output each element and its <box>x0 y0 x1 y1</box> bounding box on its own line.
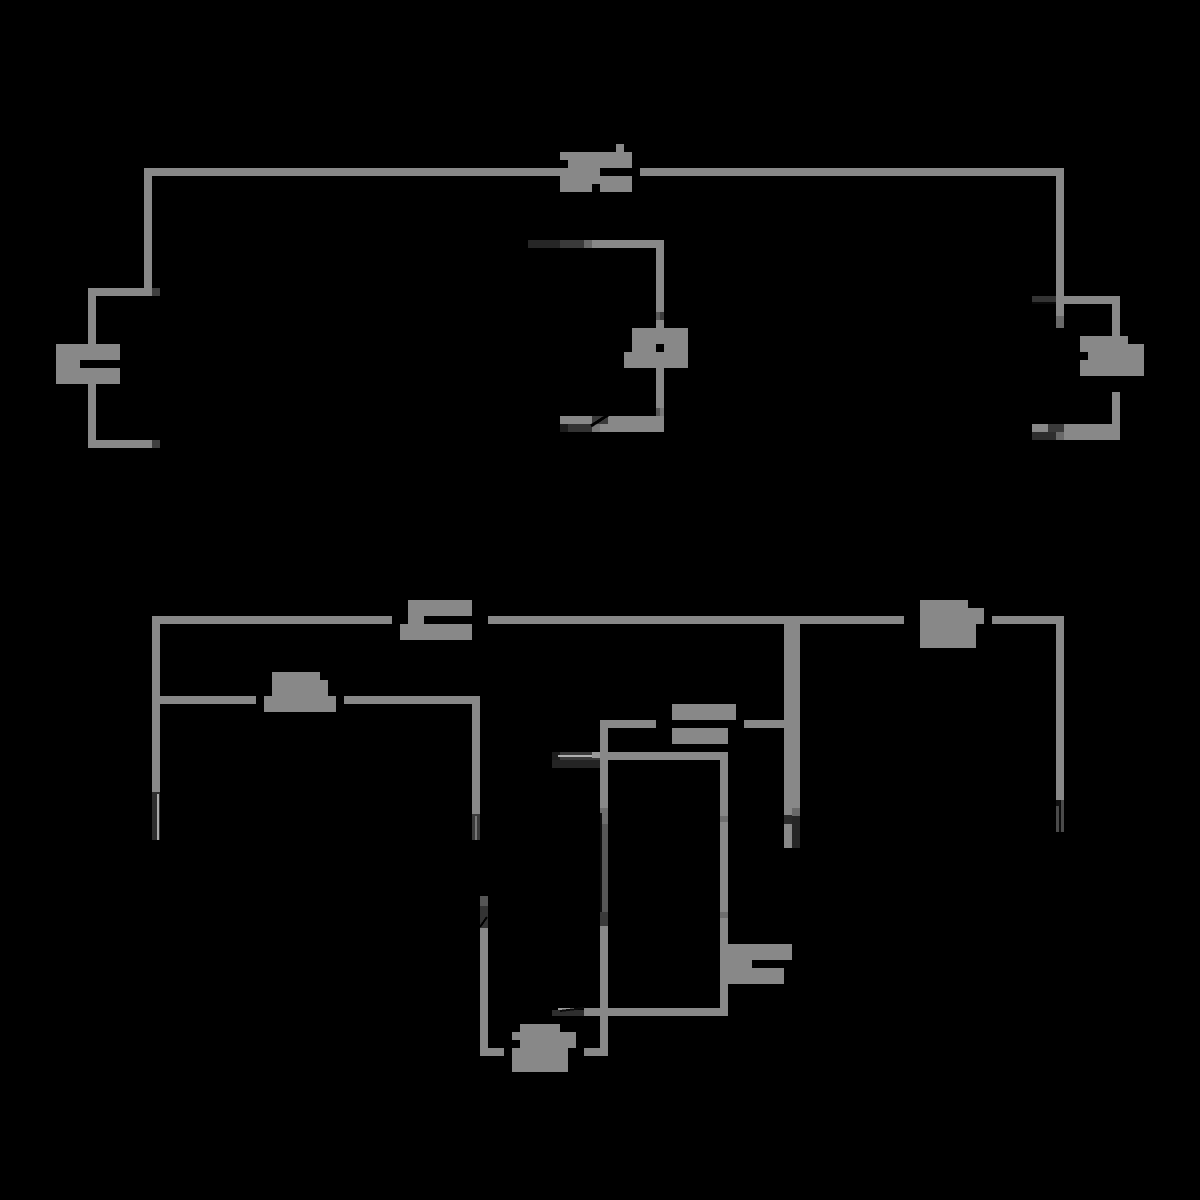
wire branch 2 top <box>592 240 664 312</box>
wire from battery bottom <box>88 384 152 448</box>
wire branch 2 bottom <box>560 416 664 432</box>
wire lamp top lead <box>656 320 664 328</box>
value label 20 <box>512 1024 576 1072</box>
wire top loop 2 middle segment <box>488 616 904 624</box>
lamp L1 <box>624 328 688 368</box>
label node d <box>552 752 600 768</box>
terminal left open end <box>152 792 160 840</box>
battery B2 <box>400 600 472 640</box>
wire from resistor R3 <box>344 696 480 814</box>
pin label lamp bottom <box>656 408 664 416</box>
wire top loop 1 left segment <box>144 168 600 176</box>
wire lamp bottom lead <box>656 368 664 408</box>
battery B3 <box>728 944 792 984</box>
wire branch 3 bottom <box>1032 424 1120 440</box>
wire capacitor branch left <box>600 720 656 728</box>
wire inner loop right vertical <box>720 760 728 1016</box>
resistor R2 blob <box>920 600 984 648</box>
wire top loop 1 right segment <box>640 168 1064 176</box>
wire left vertical loop 2 <box>152 624 160 792</box>
ammeter label lower <box>480 896 488 928</box>
wire right vertical upper <box>1056 176 1064 304</box>
wire inner loop left vertical <box>584 728 608 1056</box>
capacitor C1 <box>672 704 736 744</box>
resistor R1 <box>1080 336 1144 376</box>
node c label <box>1032 296 1058 304</box>
wire from resistor bottom <box>1112 392 1120 424</box>
battery B1 <box>56 344 120 384</box>
label inner loop bottom <box>552 1008 584 1016</box>
node b label <box>152 440 160 448</box>
wire top loop 2 right segment <box>992 616 1064 624</box>
label branch 2 top <box>528 240 592 248</box>
pin label lamp top <box>656 312 664 320</box>
label branch 3 bottom <box>1032 424 1064 440</box>
wire top loop 2 left segment <box>152 616 392 624</box>
wire middle vertical wide <box>784 624 800 848</box>
label branch 2 bottom <box>560 415 608 432</box>
terminal right open end <box>1056 800 1064 832</box>
wire inner loop top <box>600 752 728 760</box>
source label V1 <box>560 144 632 192</box>
wire stub below node c <box>1056 304 1064 328</box>
wire to battery top <box>88 288 152 344</box>
resistor R3 blob <box>264 672 336 712</box>
wire inner loop bottom <box>584 1008 728 1016</box>
wire to resistor R3 <box>152 696 256 704</box>
terminal branch open end <box>472 814 480 840</box>
wire left vertical upper <box>144 176 152 296</box>
wire lower left vertical <box>480 928 504 1056</box>
node a label <box>152 288 160 296</box>
wire right vertical loop 2 <box>1056 624 1064 800</box>
wire to resistor top <box>1056 296 1120 336</box>
wire capacitor branch right <box>744 720 784 728</box>
